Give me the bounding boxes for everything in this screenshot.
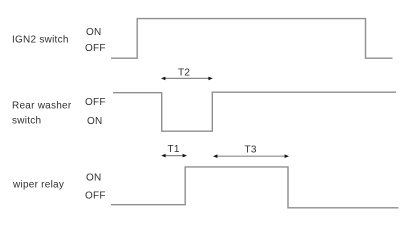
svg-text:wiper relay: wiper relay bbox=[12, 180, 64, 191]
svg-text:ON: ON bbox=[86, 173, 102, 184]
wire T2 dimension arrow bbox=[161, 77, 213, 81]
wire T3 dimension arrow bbox=[213, 154, 289, 158]
svg-text:ON: ON bbox=[87, 116, 103, 127]
svg-text:T3: T3 bbox=[245, 144, 257, 155]
wire Rear washer switch waveform bbox=[113, 92, 396, 131]
svg-text:switch: switch bbox=[12, 116, 41, 127]
svg-text:OFF: OFF bbox=[85, 191, 106, 202]
wire T1 dimension arrow bbox=[161, 154, 187, 158]
svg-text:IGN2 switch: IGN2 switch bbox=[12, 35, 69, 46]
svg-text:ON: ON bbox=[86, 27, 102, 38]
svg-text:T1: T1 bbox=[168, 144, 180, 155]
svg-text:T2: T2 bbox=[178, 68, 190, 79]
wire IGN2 switch waveform bbox=[111, 19, 393, 59]
svg-text:OFF: OFF bbox=[85, 97, 106, 108]
svg-text:OFF: OFF bbox=[85, 43, 106, 54]
svg-text:Rear washer: Rear washer bbox=[12, 101, 72, 112]
wire wiper relay waveform bbox=[111, 167, 399, 208]
